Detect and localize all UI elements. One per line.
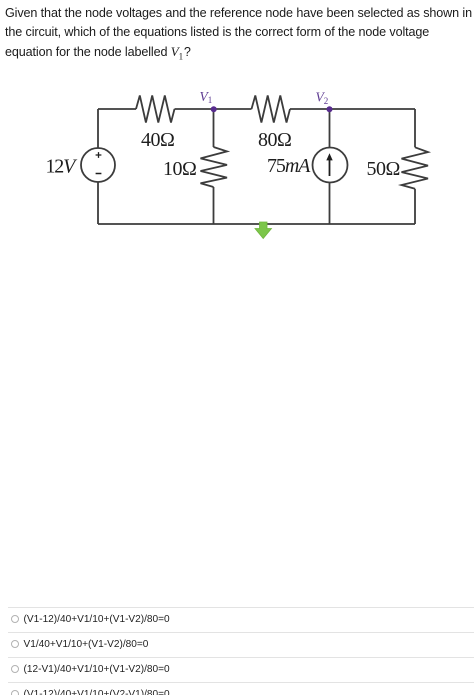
node V2 [316, 90, 333, 113]
resistor 80Ω [252, 96, 292, 152]
wire left vertical lower [97, 182, 99, 224]
voltage source V1s 12V [46, 148, 116, 182]
wire middle vertical lower [213, 187, 215, 224]
wire left vertical upper [97, 109, 99, 148]
svg-text:2: 2 [324, 96, 329, 106]
reference node ground arrow [255, 222, 272, 239]
svg-text:10Ω: 10Ω [163, 158, 196, 180]
svg-text:1: 1 [208, 95, 213, 105]
wire top-left horizontal [98, 108, 136, 110]
wire top middle (40Ω to 80Ω through node V1) [175, 108, 252, 110]
svg-text:12V: 12V [46, 156, 79, 178]
svg-text:75mA: 75mA [267, 155, 311, 177]
wire right vertical lower [414, 189, 416, 224]
wire right vertical upper [414, 109, 416, 147]
node V1 [200, 89, 217, 113]
resistor 40Ω [136, 96, 175, 152]
current source 75mA [267, 148, 348, 183]
resistor 50Ω [367, 147, 429, 189]
wire V2 vertical upper [329, 109, 331, 147]
wire bottom horizontal [98, 223, 415, 225]
svg-text:80Ω: 80Ω [258, 129, 291, 151]
wire middle vertical upper (node V1 down) [213, 109, 215, 147]
resistor 10Ω [163, 147, 227, 187]
wire V2 vertical lower [329, 183, 331, 224]
svg-text:50Ω: 50Ω [367, 158, 400, 180]
wire top right (80Ω to right corner through node V2) [290, 108, 415, 110]
svg-text:40Ω: 40Ω [141, 129, 174, 151]
